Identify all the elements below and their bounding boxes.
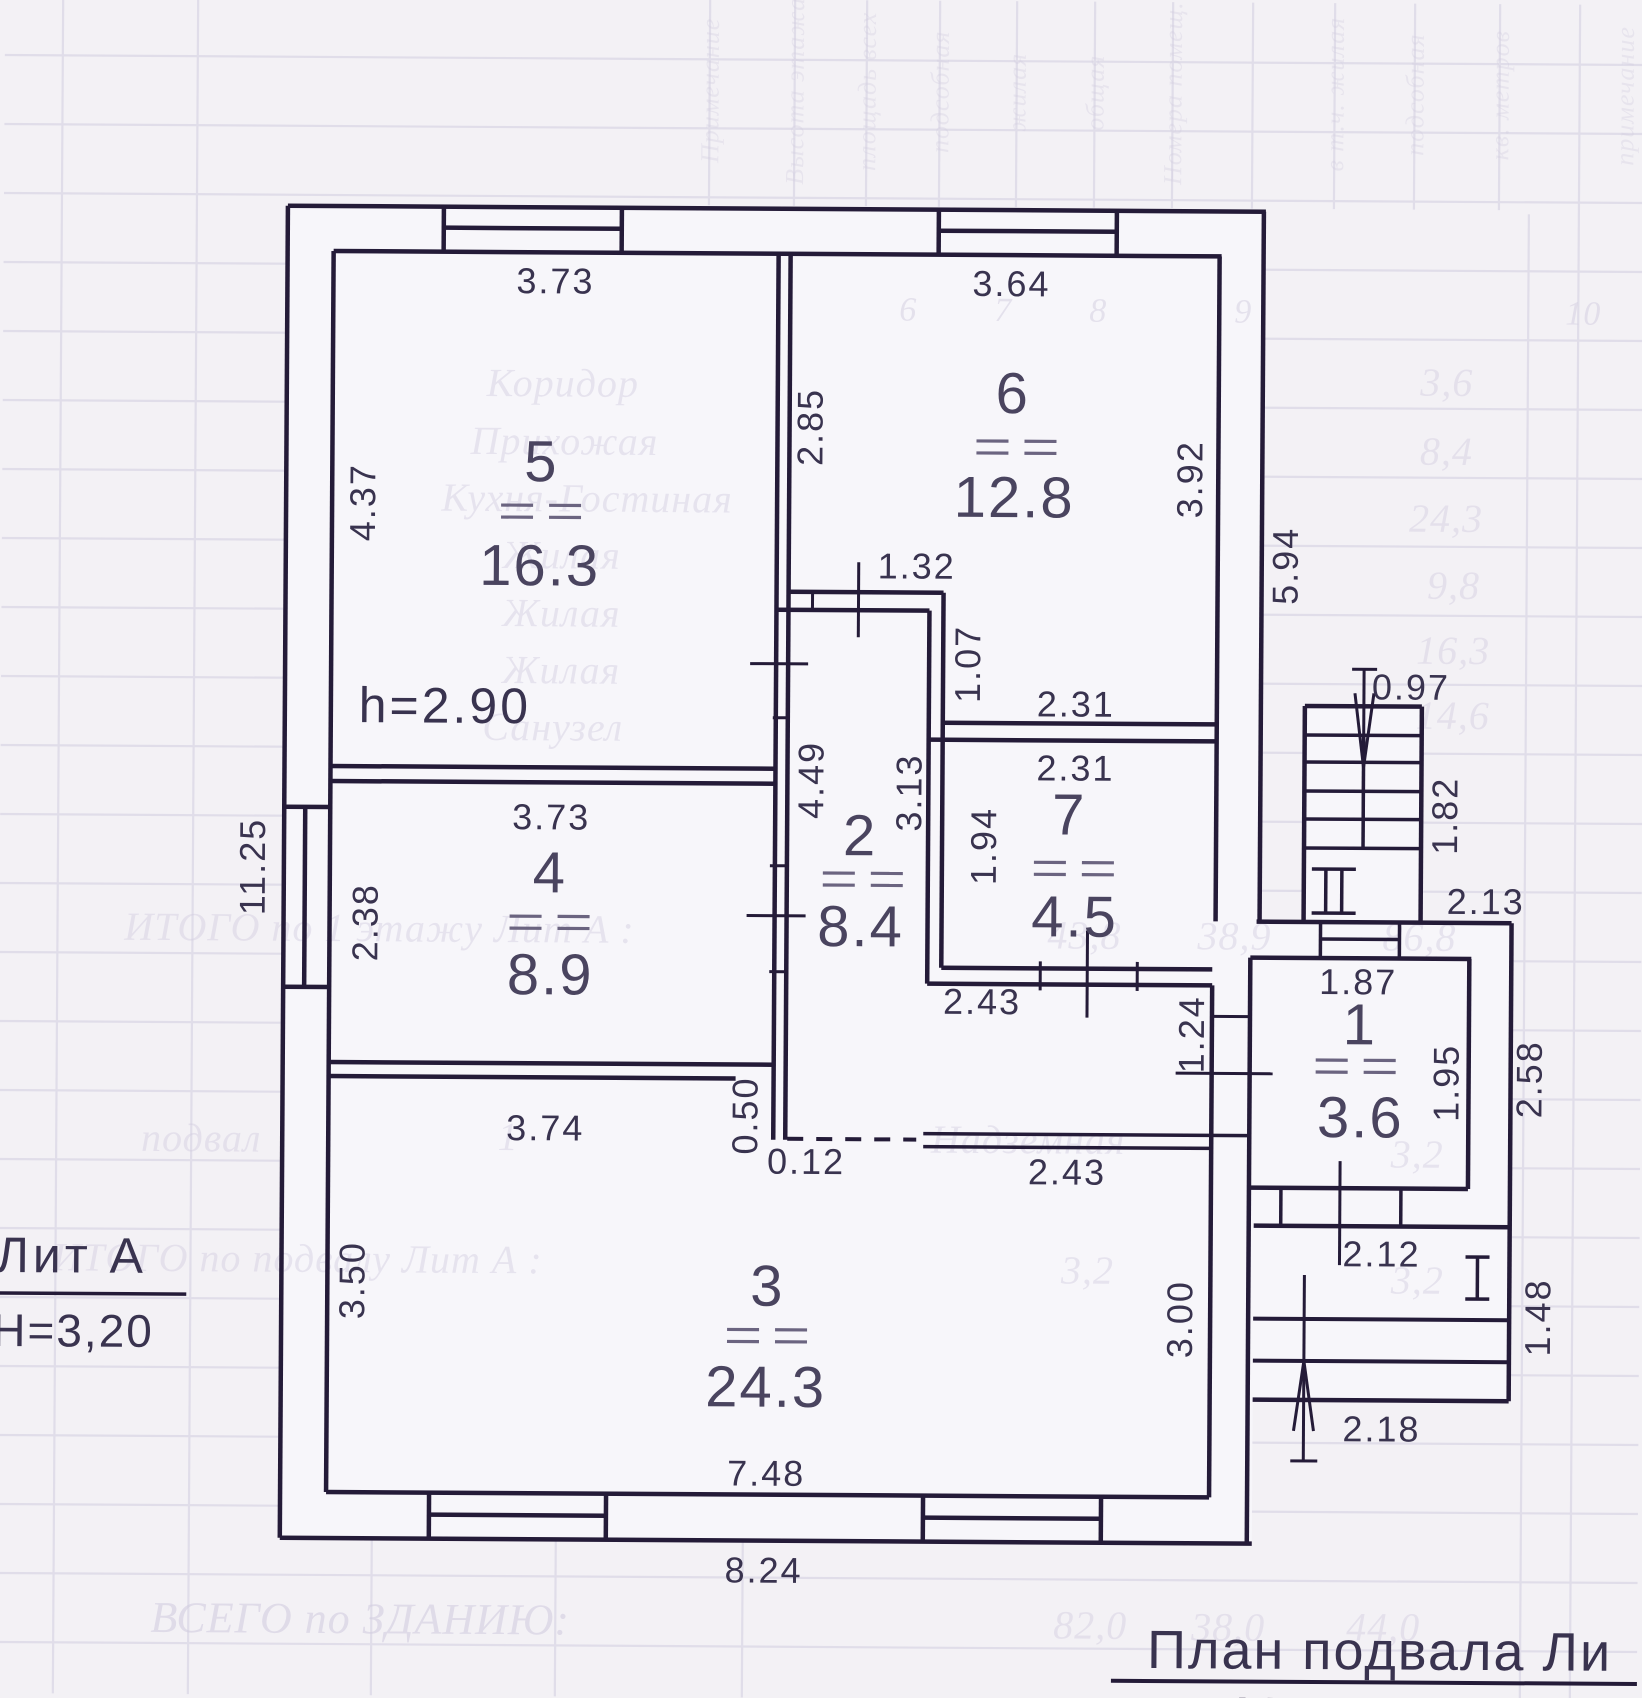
svg-text:ВСЕГО по ЗДАНИЮ:: ВСЕГО по ЗДАНИЮ: xyxy=(150,1593,570,1645)
step wall near 1.32 (corridor top) xyxy=(789,590,944,595)
inner right wall rooms 6 and 7 xyxy=(1216,256,1220,921)
svg-text:в т.ч. жилая: в т.ч. жилая xyxy=(1320,17,1350,172)
svg-text:12.8: 12.8 xyxy=(954,465,1075,531)
svg-text:7.48: 7.48 xyxy=(727,1452,805,1493)
svg-text:3,2: 3,2 xyxy=(1060,1247,1114,1292)
staircase I ascent arrow xyxy=(1303,1275,1304,1461)
svg-text:2.43: 2.43 xyxy=(1028,1151,1106,1192)
svg-text:М 1 : 100 Н 1,25: М 1 : 100 Н 1,25 xyxy=(1235,1688,1642,1698)
staircase II box xyxy=(1305,704,1422,709)
landing wall y=919 xyxy=(1257,922,1512,924)
svg-text:2.12: 2.12 xyxy=(1342,1233,1420,1274)
svg-text:2.31: 2.31 xyxy=(1037,683,1115,724)
svg-text:9,8: 9,8 xyxy=(1427,563,1480,608)
window in top wall (room 6) xyxy=(936,210,941,255)
svg-text:8.4: 8.4 xyxy=(817,894,904,960)
building footprint light fill xyxy=(280,206,1516,1545)
svg-text:1.24: 1.24 xyxy=(1171,995,1212,1073)
room 5 bottom wall xyxy=(330,766,775,769)
svg-text:1.82: 1.82 xyxy=(1424,777,1465,855)
svg-text:8,4: 8,4 xyxy=(1420,429,1473,474)
svg-text:16.3: 16.3 xyxy=(479,533,600,599)
staircase II centre line xyxy=(1361,735,1365,848)
svg-text:11.25: 11.25 xyxy=(232,818,274,916)
svg-text:0.50: 0.50 xyxy=(724,1076,765,1154)
svg-text:площадь всех: площадь всех xyxy=(852,12,882,171)
svg-text:24,3: 24,3 xyxy=(1409,496,1483,541)
svg-text:h=2.90: h=2.90 xyxy=(359,677,532,734)
svg-text:3.74: 3.74 xyxy=(506,1107,584,1148)
svg-text:3.73: 3.73 xyxy=(512,796,590,837)
svg-text:6: 6 xyxy=(899,291,917,328)
door ticks room5/corridor wall xyxy=(750,662,808,665)
roman numeral I xyxy=(1466,1255,1490,1259)
svg-text:примечание: примечание xyxy=(1610,26,1640,166)
svg-text:1.07: 1.07 xyxy=(947,625,988,703)
svg-text:8: 8 xyxy=(1089,293,1107,330)
svg-text:общая: общая xyxy=(1080,55,1109,131)
svg-text:1.32: 1.32 xyxy=(878,545,956,586)
extension tick x=857 xyxy=(857,562,860,637)
svg-text:8.24: 8.24 xyxy=(724,1549,802,1590)
svg-text:8.9: 8.9 xyxy=(507,942,594,1008)
window in left wall (room 4) xyxy=(284,804,330,809)
svg-text:кв. метров: кв. метров xyxy=(1485,30,1515,160)
staircase II treads xyxy=(1305,733,1422,737)
svg-text:подсобная: подсобная xyxy=(1400,33,1430,156)
svg-text:Н=3,20: Н=3,20 xyxy=(0,1304,154,1357)
svg-text:Коридор: Коридор xyxy=(486,360,640,406)
svg-text:10: 10 xyxy=(1565,296,1601,333)
svg-text:Прихожая: Прихожая xyxy=(469,418,658,464)
roman numeral II xyxy=(1312,867,1356,871)
staircase II descent arrow xyxy=(1352,668,1377,671)
room 4 bottom wall xyxy=(329,1062,774,1065)
svg-text:Кухня-Гостиная: Кухня-Гостиная xyxy=(440,475,733,522)
svg-text:2.43: 2.43 xyxy=(943,981,1021,1022)
room 7 bottom wall xyxy=(941,968,1212,970)
outer right wall (upper section) xyxy=(1260,212,1264,922)
corridor east wall xyxy=(941,593,943,968)
stubs room1 to staircase I xyxy=(1279,1188,1283,1226)
svg-text:3,6: 3,6 xyxy=(1419,360,1473,405)
svg-text:2.18: 2.18 xyxy=(1342,1408,1420,1449)
passage stubs stair II landing to room 1 xyxy=(1319,922,1323,958)
partition wall between rooms 5 and 6 continuing as corridor west wall xyxy=(773,254,778,1140)
svg-text:3.50: 3.50 xyxy=(331,1241,372,1319)
svg-text:5: 5 xyxy=(524,429,559,494)
window in bottom wall (right) xyxy=(921,1496,926,1542)
svg-text:4.49: 4.49 xyxy=(790,741,831,819)
svg-text:2.85: 2.85 xyxy=(789,388,830,466)
svg-text:4.5: 4.5 xyxy=(1031,884,1118,950)
svg-text:2.58: 2.58 xyxy=(1508,1040,1549,1118)
svg-text:Примечание: Примечание xyxy=(695,18,725,165)
svg-text:4: 4 xyxy=(533,840,568,905)
svg-text:2.38: 2.38 xyxy=(344,883,385,961)
dashed boundary 0.12 xyxy=(787,1137,916,1142)
outer right wall (lower blocks) xyxy=(1509,923,1512,1401)
svg-text:жилая: жилая xyxy=(1002,53,1031,132)
window in bottom wall (left) xyxy=(427,1493,432,1539)
svg-text:Лит А: Лит А xyxy=(0,1227,147,1284)
room 1 walls xyxy=(1250,958,1471,959)
outer left wall xyxy=(280,206,288,1538)
svg-text:3.6: 3.6 xyxy=(1317,1085,1404,1151)
svg-text:План подвала Ли: План подвала Ли xyxy=(1147,1620,1612,1683)
svg-text:3.73: 3.73 xyxy=(516,260,594,301)
svg-text:подвал: подвал xyxy=(141,1115,262,1161)
svg-text:1: 1 xyxy=(1343,992,1378,1057)
svg-text:82,0: 82,0 xyxy=(1053,1602,1127,1647)
staircase I treads xyxy=(1253,1319,1509,1321)
thin partition y=1133 (room 3 north-east boundary) xyxy=(923,1134,1249,1136)
svg-text:0.12: 0.12 xyxy=(767,1141,845,1182)
svg-text:3: 3 xyxy=(750,1254,785,1319)
door ticks to room 1 xyxy=(1212,1015,1250,1018)
door ticks room4 east wall xyxy=(770,864,786,867)
extension line x=1088 xyxy=(1085,931,1089,1018)
outer bottom wall xyxy=(280,1538,1252,1544)
svg-text:3.00: 3.00 xyxy=(1159,1280,1200,1358)
svg-text:3.92: 3.92 xyxy=(1169,440,1210,518)
svg-text:7: 7 xyxy=(1052,782,1087,847)
svg-text:3.13: 3.13 xyxy=(888,753,929,831)
extension tick x=1342 xyxy=(1338,1161,1342,1265)
svg-text:4.37: 4.37 xyxy=(342,463,383,541)
svg-text:Высота этажа: Высота этажа xyxy=(780,0,810,185)
staircase I box xyxy=(1254,1226,1510,1228)
room 7 top wall xyxy=(943,723,1217,725)
svg-text:3.64: 3.64 xyxy=(972,263,1050,304)
svg-text:1.48: 1.48 xyxy=(1517,1278,1558,1356)
door jambs in room 7 bottom wall xyxy=(1039,961,1042,990)
svg-text:1.94: 1.94 xyxy=(963,807,1004,885)
svg-text:9: 9 xyxy=(1234,294,1252,331)
svg-text:6: 6 xyxy=(995,361,1030,426)
svg-text:24.3: 24.3 xyxy=(705,1354,826,1420)
right wall lower (corridor/room3 east) xyxy=(1209,985,1212,1497)
outer top wall xyxy=(288,206,1266,212)
window in top wall (room 5) xyxy=(441,207,446,252)
svg-text:2.13: 2.13 xyxy=(1447,881,1525,922)
svg-text:подсобная: подсобная xyxy=(925,30,955,153)
svg-text:Номера помещ.: Номера помещ. xyxy=(1158,1,1188,186)
svg-text:1.95: 1.95 xyxy=(1425,1044,1466,1122)
svg-text:0.97: 0.97 xyxy=(1372,666,1450,707)
svg-text:2: 2 xyxy=(843,803,878,868)
door jamb in step wall xyxy=(811,592,814,610)
svg-text:5.94: 5.94 xyxy=(1265,527,1306,605)
